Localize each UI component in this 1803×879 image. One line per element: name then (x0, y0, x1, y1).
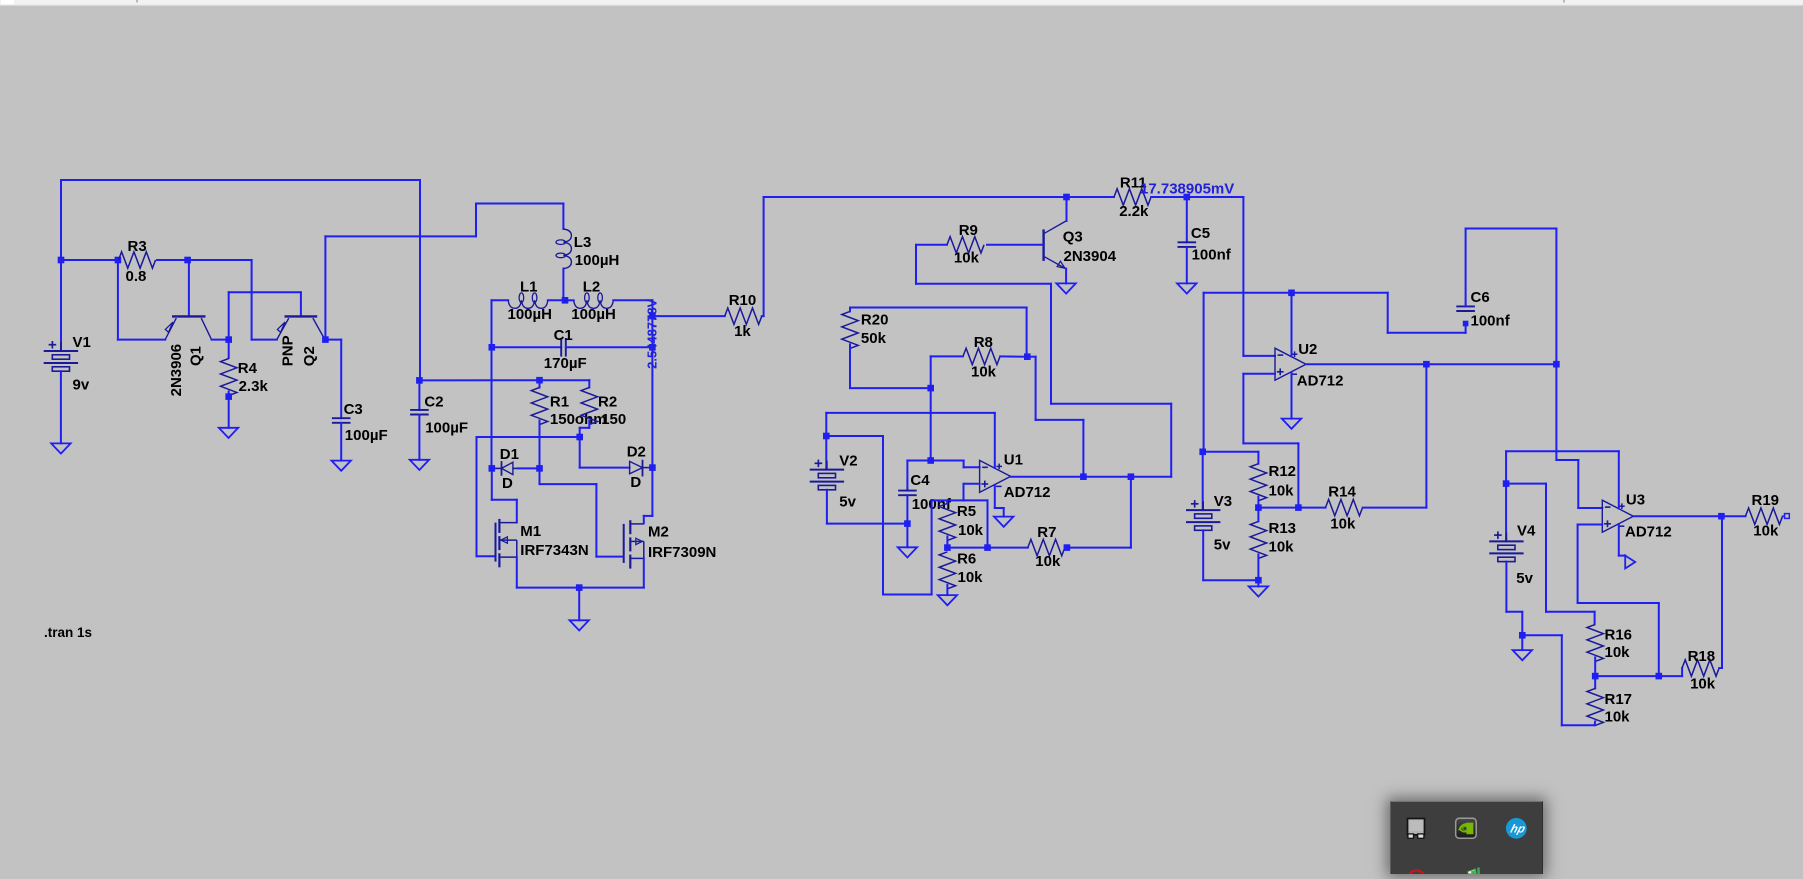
svg-text:2.2k: 2.2k (1119, 203, 1149, 220)
wire U2 output (1306, 363, 1556, 365)
svg-text:10k: 10k (1330, 516, 1356, 533)
ground C2 (410, 460, 429, 470)
wire R16R17 row (1595, 675, 1682, 677)
svg-text:5v: 5v (839, 493, 856, 510)
inductor L1 (492, 299, 509, 301)
wire (930, 356, 932, 460)
node C1 left (489, 344, 496, 351)
ground V2 (898, 547, 917, 557)
wire C5 node to U2 inv (1187, 196, 1244, 198)
wire D2 anode chain (579, 437, 581, 468)
svg-text:V1: V1 (73, 334, 91, 351)
node D1 right / R1 bottom (536, 465, 543, 472)
wire U2 V- (1291, 373, 1293, 419)
wire R10 row (652, 315, 724, 317)
resistor R18 (1681, 668, 1683, 676)
resistor R17 (1594, 676, 1596, 688)
svg-text:Q3: Q3 (1063, 229, 1083, 246)
wire R20 top rail (850, 307, 1027, 309)
wire R3 row (61, 259, 118, 261)
svg-text:L3: L3 (574, 234, 592, 251)
svg-text:10k: 10k (1269, 483, 1295, 500)
svg-text:9v: 9v (73, 376, 90, 393)
capacitor C3 (332, 417, 351, 419)
svg-text:R13: R13 (1269, 520, 1297, 537)
diode D2 (630, 461, 643, 473)
wire U3 V- (1618, 524, 1620, 555)
svg-text:M1: M1 (520, 523, 541, 540)
inductor L2 (565, 299, 574, 301)
ground C3 (332, 461, 351, 471)
resistor R20 (842, 311, 858, 348)
svg-text:100µH: 100µH (571, 306, 616, 323)
svg-text:D: D (502, 475, 513, 492)
icon hp (1506, 818, 1527, 839)
partial green icon (1468, 869, 1477, 874)
transistor Q2 PNP (285, 315, 318, 317)
svg-text:C2: C2 (424, 394, 443, 411)
node source rail (576, 584, 583, 591)
resistor R1 (539, 380, 541, 387)
node Q3 collector (1063, 194, 1070, 201)
taskbar tray panel (1390, 801, 1543, 874)
resistor R13 (1257, 508, 1259, 522)
wire (60, 371, 62, 443)
resistor R6 (939, 552, 955, 589)
top toolbar strip remnant (0, 0, 1803, 5)
node R10 tap (649, 313, 656, 320)
diode D1 (492, 467, 502, 469)
node (984, 544, 991, 551)
svg-text:5v: 5v (1214, 536, 1231, 553)
svg-text:100nf: 100nf (1192, 247, 1232, 264)
resistor R4 (228, 340, 230, 358)
wire C3 top (340, 340, 342, 419)
transistor Q1 2N3906 PNP (172, 315, 206, 317)
icon dual-monitor (1408, 819, 1425, 835)
svg-text:D: D (630, 474, 641, 491)
svg-text:V4: V4 (1517, 523, 1536, 540)
wire cross-couple (228, 292, 230, 339)
svg-text:2N3906: 2N3906 (168, 344, 185, 397)
node D1 left (489, 465, 496, 472)
node C5 top (1184, 194, 1191, 201)
wire Q1 base (188, 260, 190, 315)
wire M1 gate chain (477, 436, 580, 438)
node (225, 393, 232, 400)
wire V3 rail (1204, 292, 1388, 294)
svg-text:L2: L2 (583, 278, 601, 295)
svg-text:R17: R17 (1605, 691, 1633, 708)
wire U3 V+ (1618, 451, 1620, 508)
ground Q3 (1056, 283, 1075, 293)
svg-text:2.3k: 2.3k (239, 378, 269, 395)
node (1128, 473, 1135, 480)
svg-text:C6: C6 (1471, 289, 1490, 306)
node V4+ (1503, 480, 1510, 487)
wire M1 drain jog (491, 468, 493, 499)
node R2 bottom (576, 434, 583, 441)
wire Q2 emitter feed (252, 339, 277, 341)
wire (157, 259, 188, 261)
capacitor C6 (1456, 305, 1475, 307)
resistor R7 (1028, 539, 1065, 555)
svg-text:R1: R1 (550, 394, 569, 411)
svg-text:R7: R7 (1037, 524, 1056, 541)
node C1 right (649, 344, 656, 351)
wire (418, 380, 420, 410)
svg-text:R9: R9 (959, 222, 978, 239)
resistor R12 (1250, 464, 1266, 501)
ground M1 M2 (570, 620, 589, 630)
svg-text:R19: R19 (1752, 492, 1780, 509)
wire (60, 180, 62, 260)
svg-text:L1: L1 (520, 278, 538, 295)
svg-text:5v: 5v (1516, 570, 1533, 587)
svg-text:R18: R18 (1688, 648, 1716, 665)
resistor R2 (588, 380, 590, 387)
svg-text:U3: U3 (1626, 491, 1645, 508)
resistor R16 (1587, 624, 1603, 661)
wire U2 out to U3 inv (1555, 364, 1557, 460)
wire R12 top (1203, 451, 1259, 453)
capacitor C2 (410, 409, 429, 411)
wire U3 output (1634, 515, 1746, 517)
svg-text:V2: V2 (839, 453, 857, 470)
wire (188, 259, 252, 261)
svg-text:C4: C4 (910, 472, 930, 489)
capacitor C5 (1186, 197, 1188, 242)
resistor R3 (119, 252, 156, 268)
voltage source V1 (44, 341, 78, 371)
ground V4 (1513, 650, 1532, 660)
ground V3 (1249, 586, 1268, 596)
port square out (1785, 514, 1790, 519)
wire U1 output (1011, 476, 1172, 478)
node R7 right (1064, 544, 1071, 551)
svg-text:1k: 1k (734, 323, 751, 340)
wire U2 V+ pin (1291, 293, 1293, 357)
node V2- C4 (904, 520, 911, 527)
node Q2 collector (322, 336, 329, 343)
node V3- (1255, 577, 1262, 584)
node D2 cathode (649, 464, 656, 471)
node U3 out (1718, 513, 1725, 520)
transistor Q3 2N3904 (1066, 197, 1068, 221)
svg-text:50k: 50k (861, 330, 887, 347)
resistor R10 (725, 308, 762, 324)
svg-text:R20: R20 (861, 312, 889, 329)
svg-text:R12: R12 (1269, 463, 1297, 480)
resistor R11 (1067, 196, 1115, 198)
wire to R6 (987, 500, 989, 547)
wire Q3 base row (987, 244, 1043, 246)
op-amp U1 AD712 (980, 460, 1011, 492)
node U2 V+ (1288, 290, 1295, 297)
wire Q2 base (300, 292, 302, 315)
svg-text:D1: D1 (500, 446, 519, 463)
wire C2 column (419, 180, 421, 380)
wire R1 R2 top rail (419, 379, 589, 381)
voltage source V3 (1202, 452, 1204, 510)
wire R7 row (947, 547, 1027, 549)
svg-text:100µH: 100µH (508, 306, 553, 323)
node (1295, 504, 1302, 511)
resistor R8 (963, 348, 1000, 364)
wire (251, 260, 253, 340)
svg-text:R10: R10 (729, 292, 757, 309)
svg-text:R16: R16 (1605, 627, 1633, 644)
node (1553, 361, 1560, 368)
svg-text:U2: U2 (1298, 341, 1317, 358)
node R1 top (536, 377, 543, 384)
wire U1 V+ (994, 413, 996, 468)
node (115, 257, 122, 264)
wire switch-node column (651, 300, 653, 516)
wire (762, 315, 764, 317)
svg-text:IRF7343N: IRF7343N (520, 542, 588, 559)
wire R8 jog to output (1027, 356, 1035, 358)
svg-text:V3: V3 (1214, 493, 1232, 510)
ground U2 (1282, 419, 1301, 429)
node integrator input (927, 385, 934, 392)
wire U1 V- to ground (994, 485, 996, 508)
wire V4+ to R16 (1506, 483, 1546, 485)
svg-text:R6: R6 (957, 550, 976, 567)
svg-text:R3: R3 (128, 238, 147, 255)
svg-text:150ohm: 150ohm (550, 411, 607, 428)
node (1656, 673, 1663, 680)
svg-text:Q1: Q1 (187, 346, 204, 366)
op-amp U2 AD712 (1275, 348, 1306, 380)
wire V4 rail (1506, 450, 1619, 452)
wire U2 + input (1243, 373, 1275, 375)
node (184, 257, 191, 264)
svg-text:C1: C1 (554, 327, 573, 344)
node C4 top (927, 457, 934, 464)
svg-text:10k: 10k (958, 522, 984, 539)
node C6 bottom (1463, 321, 1469, 327)
capacitor C4 (898, 490, 917, 492)
svg-text:10k: 10k (958, 569, 984, 586)
node V3+ (1199, 449, 1206, 456)
svg-text:100nf: 100nf (1471, 313, 1511, 330)
svg-text:10k: 10k (954, 250, 980, 267)
svg-text:AD712: AD712 (1625, 523, 1672, 540)
wire V2+ to U1 + chain (826, 435, 883, 437)
wire M2 drain jog (644, 515, 653, 517)
wire C4 row (907, 460, 963, 462)
node (1080, 473, 1087, 480)
node L1-L2-L3 (562, 297, 569, 304)
svg-text:10k: 10k (1753, 523, 1779, 540)
mosfet M1 IRF7343N (495, 523, 497, 562)
svg-text:17.738905mV: 17.738905mV (1140, 181, 1234, 198)
svg-text:Q2: Q2 (301, 346, 318, 366)
svg-text:.tran 1s: .tran 1s (44, 625, 92, 640)
wire (916, 244, 947, 246)
resistor R19 (1746, 508, 1783, 524)
mosfet M2 IRF7309N (623, 524, 625, 563)
voltage source V2 (825, 436, 827, 470)
svg-text:IRF7309N: IRF7309N (648, 544, 716, 561)
svg-text:100µH: 100µH (575, 252, 620, 269)
svg-text:C5: C5 (1191, 225, 1210, 242)
wire Q1 collector (212, 339, 229, 341)
resistor R9 (947, 237, 984, 253)
svg-text:R8: R8 (974, 334, 993, 351)
svg-text:10k: 10k (1605, 708, 1631, 725)
svg-text:100µF: 100µF (345, 427, 388, 444)
node V1+ junction (58, 257, 65, 264)
resistor R14 (1326, 499, 1363, 515)
svg-text:170µF: 170µF (544, 355, 587, 372)
node R5 R6 (944, 544, 951, 551)
node (1423, 361, 1430, 368)
node V2+ (823, 433, 830, 440)
wire source rail (516, 557, 518, 588)
node V4- (1519, 632, 1526, 639)
svg-text:10k: 10k (1690, 676, 1716, 693)
wire Q3 emitter (1065, 269, 1067, 284)
ground V1 (51, 443, 70, 453)
wire (1065, 547, 1131, 549)
voltage source V4 (1505, 484, 1507, 542)
svg-text:R14: R14 (1328, 484, 1356, 501)
inductor L3 (562, 204, 564, 230)
svg-text:2.5448778V: 2.5448778V (645, 298, 660, 368)
ground R6 (938, 595, 957, 605)
wire Q1 emitter chain (117, 260, 119, 340)
svg-text:10k: 10k (1269, 538, 1295, 555)
wire L1 left column (491, 300, 493, 468)
svg-text:AD712: AD712 (1297, 373, 1344, 390)
svg-text:R2: R2 (598, 394, 617, 411)
wire U3 + input chain (1578, 524, 1603, 526)
svg-text:M2: M2 (648, 523, 669, 540)
svg-text:PNP: PNP (280, 335, 297, 366)
ground R4 (219, 428, 238, 438)
svg-text:AD712: AD712 (1004, 484, 1051, 501)
wire (60, 260, 62, 351)
wire V2 top rail (826, 412, 995, 414)
svg-text:R5: R5 (957, 503, 976, 520)
resistor R5 (939, 503, 955, 540)
svg-text:C3: C3 (344, 401, 363, 418)
svg-text:R4: R4 (238, 360, 258, 377)
wire U1 + input (963, 484, 965, 501)
wire M2 gate chain (539, 468, 541, 484)
node Q1 collector (225, 336, 232, 343)
node C2 top (416, 377, 423, 384)
partial red icon (1408, 870, 1425, 879)
wire boost feed (324, 236, 326, 339)
ground U1 (994, 517, 1013, 527)
svg-text:U1: U1 (1004, 451, 1023, 468)
ground U3 rotated (1625, 556, 1635, 569)
svg-text:D2: D2 (627, 444, 646, 461)
capacitor C1 (492, 346, 561, 348)
wire divider to R14 (1258, 507, 1325, 509)
svg-text:150: 150 (601, 411, 626, 428)
node R8 right (1024, 353, 1031, 360)
node R16 R17 (1592, 673, 1599, 680)
node divider (1255, 504, 1262, 511)
svg-text:2N3904: 2N3904 (1064, 248, 1117, 265)
op-amp U3 AD712 (1602, 500, 1633, 532)
wire feedback column (1425, 364, 1427, 507)
wire top rail V1+ (61, 179, 420, 181)
ground C5 (1177, 283, 1196, 293)
svg-text:10k: 10k (971, 364, 997, 381)
wire U1 inv input (963, 461, 965, 468)
svg-text:10k: 10k (1605, 644, 1631, 661)
wire Q2 collector (325, 339, 341, 341)
svg-text:100µF: 100µF (425, 419, 468, 436)
wire C6 bottom chain (1387, 293, 1389, 333)
svg-text:10k: 10k (1035, 553, 1061, 570)
svg-text:0.8: 0.8 (126, 268, 147, 285)
